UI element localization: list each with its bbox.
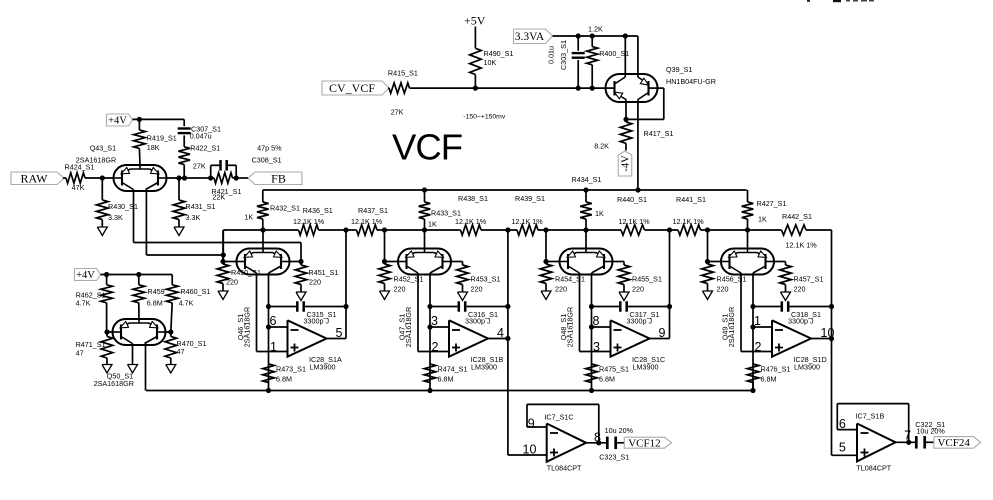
svg-text:VCF12: VCF12	[628, 437, 660, 449]
svg-text:Q43_S1: Q43_S1	[90, 144, 116, 153]
svg-text:220: 220	[309, 278, 321, 287]
svg-text:LM3900: LM3900	[310, 363, 336, 372]
svg-text:3.3K: 3.3K	[186, 213, 201, 222]
svg-text:LM3900: LM3900	[471, 363, 497, 372]
svg-text:R473_S1: R473_S1	[276, 365, 306, 374]
svg-text:1K: 1K	[428, 220, 437, 229]
svg-text:6: 6	[270, 314, 277, 328]
svg-text:8: 8	[594, 431, 601, 445]
svg-text:1K: 1K	[244, 213, 253, 222]
svg-text:6.8M: 6.8M	[276, 375, 292, 384]
svg-text:TL084CPT: TL084CPT	[856, 464, 891, 473]
svg-text:R442_S1: R442_S1	[782, 212, 812, 221]
svg-text:3: 3	[593, 340, 600, 354]
svg-text:R434_S1: R434_S1	[572, 175, 602, 184]
svg-text:R476_S1: R476_S1	[761, 365, 791, 374]
svg-text:2SA1618GR: 2SA1618GR	[404, 307, 413, 347]
svg-text:IC7_S1B: IC7_S1B	[856, 412, 885, 421]
svg-text:2SA1618GR: 2SA1618GR	[727, 307, 736, 347]
svg-text:-4V: -4V	[621, 155, 632, 172]
svg-text:3.3K: 3.3K	[108, 213, 123, 222]
svg-text:R439_S1: R439_S1	[515, 194, 545, 203]
svg-text:R436_S1: R436_S1	[303, 206, 333, 215]
svg-text:R415_S1: R415_S1	[388, 69, 418, 78]
svg-text:12.1K 1%: 12.1K 1%	[786, 241, 818, 250]
svg-text:6: 6	[839, 417, 846, 431]
svg-text:220: 220	[794, 285, 806, 294]
svg-text:C323_S1: C323_S1	[599, 453, 629, 462]
svg-text:220: 220	[471, 285, 483, 294]
svg-text:LM3900: LM3900	[794, 363, 820, 372]
svg-text:12.1K 1%: 12.1K 1%	[673, 217, 705, 226]
svg-text:47K: 47K	[72, 183, 85, 192]
svg-text:10K: 10K	[484, 58, 497, 67]
svg-text:10u 20%: 10u 20%	[916, 427, 945, 436]
svg-text:27K: 27K	[193, 162, 206, 171]
svg-text:R431_S1: R431_S1	[186, 202, 216, 211]
svg-text:LM3900: LM3900	[633, 363, 659, 372]
svg-text:R417_S1: R417_S1	[644, 129, 674, 138]
svg-text:6.8M: 6.8M	[438, 375, 454, 384]
svg-text:3: 3	[431, 314, 438, 328]
svg-text:2SA1618GR: 2SA1618GR	[94, 379, 134, 388]
svg-text:9: 9	[659, 326, 666, 340]
svg-text:R474_S1: R474_S1	[438, 365, 468, 374]
svg-text:R440_S1: R440_S1	[617, 195, 647, 204]
svg-text:47p 5%: 47p 5%	[257, 144, 282, 153]
svg-text:220: 220	[632, 285, 644, 294]
svg-text:220: 220	[394, 285, 406, 294]
svg-text:1K: 1K	[758, 215, 767, 224]
svg-text:18K: 18K	[147, 143, 160, 152]
svg-text:4.7K: 4.7K	[179, 299, 194, 308]
svg-text:0.01u: 0.01u	[547, 46, 556, 64]
svg-text:C303_S1: C303_S1	[559, 40, 568, 70]
svg-text:3300p J: 3300p J	[465, 317, 491, 326]
svg-text:+4V: +4V	[76, 270, 95, 281]
svg-text:220: 220	[226, 278, 238, 287]
svg-text:6.8M: 6.8M	[761, 375, 777, 384]
svg-text:2: 2	[432, 340, 439, 354]
svg-text:TL084CPT: TL084CPT	[547, 464, 582, 473]
svg-text:8.2K: 8.2K	[594, 142, 609, 151]
svg-text:Q39_S1: Q39_S1	[666, 65, 692, 74]
svg-text:9: 9	[528, 417, 535, 431]
svg-text:12.1K 1%: 12.1K 1%	[293, 217, 325, 226]
svg-text:R452_S1: R452_S1	[394, 275, 424, 284]
svg-text:1K: 1K	[595, 209, 604, 218]
svg-text:1: 1	[754, 314, 761, 328]
svg-text:7: 7	[904, 429, 911, 443]
svg-text:10: 10	[821, 326, 835, 340]
svg-text:+5V: +5V	[464, 14, 486, 28]
svg-text:6.8M: 6.8M	[599, 375, 615, 384]
svg-text:6.8M: 6.8M	[147, 299, 163, 308]
svg-text:5: 5	[839, 441, 846, 455]
svg-text:R490_S1: R490_S1	[484, 49, 514, 58]
svg-text:R437_S1: R437_S1	[358, 206, 388, 215]
svg-text:3300p J: 3300p J	[304, 317, 330, 326]
svg-text:R422_S1: R422_S1	[190, 144, 220, 153]
svg-text:12.1K 1%: 12.1K 1%	[351, 217, 383, 226]
svg-text:R441_S1: R441_S1	[676, 195, 706, 204]
svg-text:R455_S1: R455_S1	[632, 275, 662, 284]
svg-text:FB: FB	[271, 171, 286, 185]
svg-text:12.1K 1%: 12.1K 1%	[619, 217, 651, 226]
svg-text:C308_S1: C308_S1	[252, 156, 282, 165]
svg-text:1: 1	[270, 340, 277, 354]
svg-text:R438_S1: R438_S1	[458, 194, 488, 203]
svg-text:R457_S1: R457_S1	[794, 275, 824, 284]
svg-text:R451_S1: R451_S1	[309, 268, 339, 277]
svg-text:R460_S1: R460_S1	[180, 287, 210, 296]
svg-text:R454_S1: R454_S1	[555, 275, 585, 284]
svg-text:VCF24: VCF24	[937, 437, 970, 449]
svg-text:220: 220	[555, 285, 567, 294]
svg-text:RAW: RAW	[20, 171, 48, 185]
svg-text:R419_S1: R419_S1	[147, 134, 177, 143]
svg-text:10u 20%: 10u 20%	[605, 426, 634, 435]
svg-text:2: 2	[755, 340, 762, 354]
svg-text:8: 8	[593, 314, 600, 328]
svg-text:4.7K: 4.7K	[76, 299, 91, 308]
svg-text:R456_S1: R456_S1	[717, 275, 747, 284]
svg-text:1.2K: 1.2K	[588, 25, 603, 34]
svg-text:4: 4	[497, 326, 504, 340]
svg-text:R459: R459	[148, 287, 165, 296]
svg-text:3.3VA: 3.3VA	[515, 31, 545, 43]
svg-text:47: 47	[76, 349, 84, 358]
svg-text:VCF: VCF	[392, 127, 462, 168]
svg-text:+4V: +4V	[108, 116, 127, 127]
svg-text:IC7_S1C: IC7_S1C	[544, 413, 573, 422]
svg-text:CV_VCF: CV_VCF	[329, 81, 375, 95]
svg-text:220: 220	[717, 285, 729, 294]
svg-text:-150~+150mv: -150~+150mv	[463, 114, 506, 121]
svg-text:22K: 22K	[212, 192, 225, 201]
svg-text:10: 10	[523, 443, 537, 457]
svg-text:2SA1618GR: 2SA1618GR	[566, 307, 575, 347]
svg-text:R450_S1: R450_S1	[231, 268, 261, 277]
svg-text:R432_S1: R432_S1	[270, 204, 300, 213]
svg-text:2SA1618GR: 2SA1618GR	[76, 156, 116, 165]
svg-text:2SA1618GR: 2SA1618GR	[243, 307, 252, 347]
svg-text:0.047u: 0.047u	[190, 132, 212, 141]
svg-text:R427_S1: R427_S1	[757, 199, 787, 208]
svg-text:27K: 27K	[391, 108, 404, 117]
svg-text:R475_S1: R475_S1	[599, 365, 629, 374]
svg-text:3300p J: 3300p J	[627, 317, 653, 326]
svg-text:3300p J: 3300p J	[788, 317, 814, 326]
svg-text:47: 47	[177, 347, 185, 356]
svg-text:12.1K 1%: 12.1K 1%	[455, 217, 487, 226]
svg-text:R453_S1: R453_S1	[471, 275, 501, 284]
svg-text:12.1K 1%: 12.1K 1%	[512, 217, 544, 226]
svg-text:5: 5	[336, 326, 343, 340]
svg-text:HN1B04FU-GR: HN1B04FU-GR	[666, 77, 716, 86]
